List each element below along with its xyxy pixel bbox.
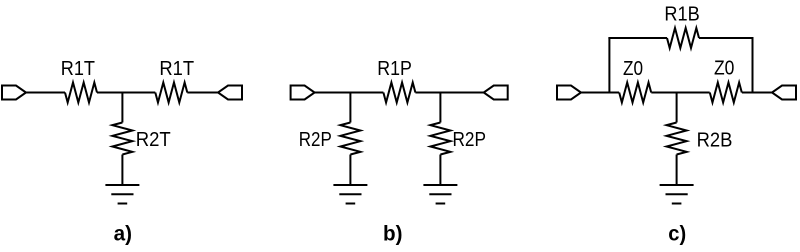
ground (circuit c) bbox=[660, 185, 694, 204]
svg-text:Z0: Z0 bbox=[623, 57, 643, 80]
wire (top rail left) bbox=[608, 37, 667, 39]
resistor R1T (left) bbox=[65, 83, 97, 103]
wire bbox=[26, 92, 65, 94]
resistor R1B bbox=[667, 28, 699, 48]
ground (circuit b right) bbox=[423, 185, 457, 204]
ground (circuit b left) bbox=[333, 185, 367, 204]
wire (top rail right) bbox=[699, 37, 754, 39]
resistor R2P (left) bbox=[340, 123, 360, 155]
port P2 (circuit a output) bbox=[218, 86, 242, 100]
resistor R2P (right) bbox=[430, 123, 450, 155]
resistor R2B bbox=[667, 123, 687, 155]
port P4 (circuit b output) bbox=[484, 86, 508, 100]
svg-text:Z0: Z0 bbox=[714, 57, 734, 80]
wire bbox=[439, 155, 441, 186]
wire bbox=[97, 92, 155, 94]
wire bbox=[415, 92, 483, 94]
port P5 (circuit c input) bbox=[557, 86, 581, 100]
wire bbox=[581, 92, 619, 94]
wire (node to R2T) bbox=[121, 93, 123, 123]
svg-text:b): b) bbox=[383, 223, 403, 246]
ground (circuit a) bbox=[105, 185, 139, 204]
svg-text:R1B: R1B bbox=[664, 3, 699, 26]
port P3 (circuit b input) bbox=[291, 86, 315, 100]
svg-text:R2T: R2T bbox=[136, 128, 171, 151]
wire bbox=[676, 155, 678, 186]
resistor Z0 (right) bbox=[710, 83, 742, 103]
wire bbox=[187, 92, 218, 94]
resistor Z0 (left) bbox=[619, 83, 651, 103]
resistor R1P bbox=[383, 83, 415, 103]
wire (center node to R2B) bbox=[676, 93, 678, 123]
wire (right node to R2P) bbox=[439, 93, 441, 123]
port P6 (circuit c output) bbox=[772, 86, 796, 100]
svg-text:a): a) bbox=[114, 223, 132, 246]
svg-text:R1T: R1T bbox=[61, 57, 96, 80]
svg-text:R2B: R2B bbox=[697, 128, 733, 151]
wire bbox=[742, 92, 772, 94]
wire bbox=[651, 92, 709, 94]
wire bbox=[315, 92, 384, 94]
wire bbox=[349, 155, 351, 186]
wire bbox=[121, 155, 123, 186]
wire (left node to R2P) bbox=[349, 93, 351, 123]
svg-text:c): c) bbox=[668, 223, 686, 246]
svg-text:R2P: R2P bbox=[453, 128, 487, 151]
svg-text:R1P: R1P bbox=[377, 57, 412, 80]
wire (node B riser) bbox=[752, 38, 754, 93]
resistor R1T (right) bbox=[155, 83, 187, 103]
svg-text:R1T: R1T bbox=[159, 57, 194, 80]
svg-text:R2P: R2P bbox=[299, 128, 332, 151]
wire (node A riser) bbox=[608, 38, 610, 93]
resistor R2T bbox=[112, 123, 132, 155]
port P1 (circuit a input) bbox=[2, 86, 26, 100]
